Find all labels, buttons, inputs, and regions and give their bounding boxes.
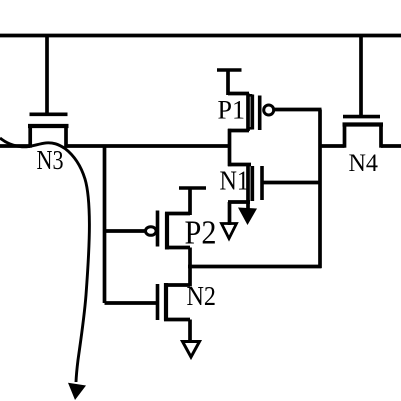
svg-text:N2: N2 bbox=[187, 281, 217, 311]
svg-text:P1: P1 bbox=[218, 96, 245, 125]
svg-text:N4: N4 bbox=[349, 148, 379, 177]
svg-text:N1: N1 bbox=[220, 166, 250, 196]
svg-text:P2: P2 bbox=[185, 215, 217, 252]
svg-text:N3: N3 bbox=[37, 145, 64, 175]
